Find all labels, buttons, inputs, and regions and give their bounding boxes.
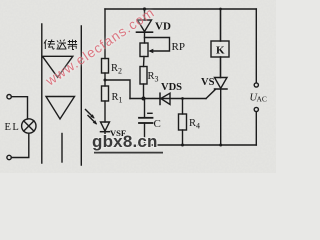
wire VSF to bottom rail [104,132,106,145]
gate wire horizontal [130,98,206,100]
light arrow 2 head [93,120,97,124]
diode VD cathode bar [137,31,153,33]
wire junction R2R1 to divider tap [105,80,130,99]
conveyor triangle 1 [42,56,72,77]
wire K to VS [220,57,222,78]
resistor R2 body [102,59,109,74]
wire R3 to gate wire [143,84,145,99]
capacitor C bottom lead [144,123,146,145]
wire from top terminal to lamp [11,97,27,119]
capacitor C bottom plate [139,122,153,124]
UAC top terminal circle [254,83,258,87]
light arrow 2 [88,116,96,124]
falling object line below triangle 2 [61,134,63,163]
paper background [0,0,276,173]
wire RP to R3 [143,57,146,67]
thyristor VS cathode bar [215,88,228,90]
svg-text:AC: AC [257,95,267,104]
svg-text:RP: RP [172,41,185,53]
wire VD top lead [144,9,146,20]
junction dot VS bottom [219,144,222,147]
junction dot K top [219,8,222,11]
conveyor belt right line [80,26,82,165]
wire VD to RP [144,32,146,43]
capacitor C minus mark [148,112,152,114]
gate diagonal into VS [206,89,216,98]
UAC bottom terminal circle [254,107,258,111]
diode VD triangle [138,20,152,32]
left branch wire top [104,9,106,59]
watermark gbx8.cn [92,132,158,152]
relay K box [211,41,229,57]
svg-text:VD: VD [155,21,171,33]
gbx8.cn watermark underline [94,152,163,154]
light arrow 1 head [90,114,94,118]
resistor R4 top lead [182,99,184,115]
svg-text:EL: EL [5,122,21,133]
wire from UAC bottom terminal to bottom rail [255,112,257,145]
junction dot R3 C gate [142,97,146,101]
capacitor C top lead [144,99,146,118]
potentiometer RP body [140,43,148,57]
diode VDS triangle pointing left [161,93,170,104]
resistor R3 body [140,67,147,85]
wire from lamp to bottom terminal [11,133,29,157]
label 传送带 (drawn strokes) [44,40,77,50]
lamp EL cross stroke 1 [24,121,34,131]
junction dot R4 bottom [181,144,184,147]
right edge wire to UAC top terminal [255,9,257,83]
light arrow 1 [86,110,94,118]
junction dot VD top [143,7,146,10]
thyristor VS cathode wire to bottom rail [220,89,222,145]
watermark www.elecfans.com [43,5,157,89]
junction dot R4 tap [181,97,184,100]
potentiometer RP wiper arrowhead [148,49,153,54]
terminal circle top left [7,95,11,99]
relay K top lead [220,9,222,41]
capacitor C top plate [139,117,153,119]
conveyor belt left line [41,24,43,163]
lamp EL circle [22,119,36,133]
wire R2 to R1 [104,73,106,86]
conveyor triangle 2 [46,97,75,120]
resistor R4 body [179,114,187,130]
resistor R1 body [102,86,109,101]
svg-text:VS: VS [201,77,215,88]
svg-text:K: K [216,45,225,57]
diode VDS cathode bar [159,93,161,104]
photodiode VSF triangle [101,122,110,131]
svg-text:VDS: VDS [161,82,182,93]
top rail [105,8,256,10]
thyristor VS triangle [215,78,228,89]
bottom rail [105,144,256,146]
wire R1 to VSF [104,101,106,122]
junction dot divider tap [104,79,107,82]
terminal circle bottom left [7,155,11,159]
potentiometer RP wiper loop [145,38,170,52]
photodiode VSF cathode bar [101,131,110,133]
svg-text:C: C [154,118,161,130]
lamp EL cross stroke 2 [24,121,34,131]
resistor R4 bottom lead [182,130,184,145]
